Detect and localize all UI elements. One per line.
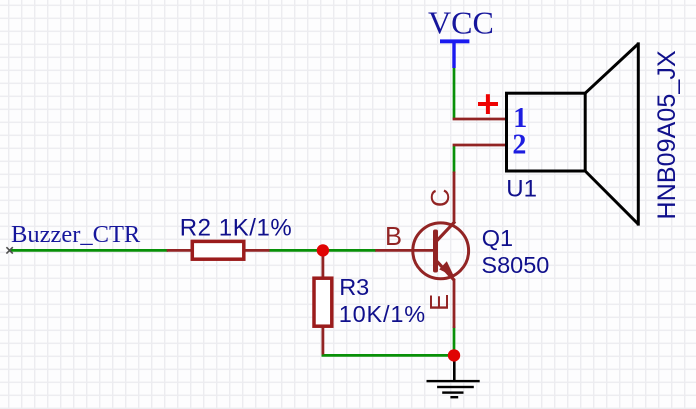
svg-text:R3: R3 (339, 274, 369, 300)
svg-text:VCC: VCC (428, 4, 494, 40)
svg-text:2: 2 (512, 129, 526, 160)
svg-text:10K/1%: 10K/1% (339, 301, 426, 327)
svg-text:HNB09A05_JX: HNB09A05_JX (653, 50, 681, 219)
svg-text:Buzzer_CTR: Buzzer_CTR (11, 221, 141, 248)
svg-text:C: C (427, 189, 455, 207)
svg-text:B: B (385, 223, 402, 251)
svg-text:U1: U1 (506, 176, 537, 203)
svg-text:S8050: S8050 (481, 252, 549, 278)
svg-text:Q1: Q1 (482, 225, 513, 251)
svg-text:R2 1K/1%: R2 1K/1% (180, 215, 292, 242)
svg-text:E: E (426, 294, 454, 311)
